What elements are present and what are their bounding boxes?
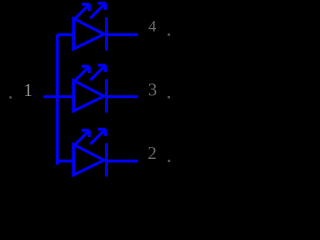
pin 1 terminal dot: [9, 96, 11, 98]
pin 2 label: [148, 143, 157, 163]
svg-text:1: 1: [24, 80, 33, 100]
LED D2 arrow 1: [75, 66, 89, 80]
LED D3 arrow 1: [75, 130, 89, 144]
wire pin 2: [107, 160, 139, 163]
svg-text:3: 3: [148, 80, 157, 100]
LED D2 arrow 2: [90, 65, 105, 80]
pin 2 terminal dot: [168, 160, 170, 162]
pin 1 label: [24, 80, 33, 100]
LED D2 cathode bar: [105, 79, 108, 112]
wire common anode bus: [56, 35, 59, 165]
wire pin 4: [107, 33, 139, 36]
LED D2 triangle: [74, 81, 104, 111]
LED D1 cathode bar: [105, 17, 108, 50]
pin 4 label: [148, 19, 156, 36]
wire anode top branch: [57, 33, 73, 36]
LED D3 triangle: [74, 145, 104, 175]
LED D3 cathode bar: [105, 143, 108, 176]
pin 4 terminal dot: [168, 33, 170, 35]
svg-text:4: 4: [148, 19, 156, 36]
pin 3 label: [148, 80, 157, 100]
wire anode bottom branch: [57, 160, 73, 163]
wire pin 1 stub: [43, 95, 73, 98]
LED D1 arrow 1: [75, 4, 89, 18]
wire pin 3: [107, 95, 139, 98]
LED D1 arrow 2: [90, 3, 105, 18]
LED D1 triangle: [74, 19, 104, 49]
pin 3 terminal dot: [168, 96, 170, 98]
svg-text:2: 2: [148, 143, 157, 163]
LED D3 arrow 2: [90, 129, 105, 144]
